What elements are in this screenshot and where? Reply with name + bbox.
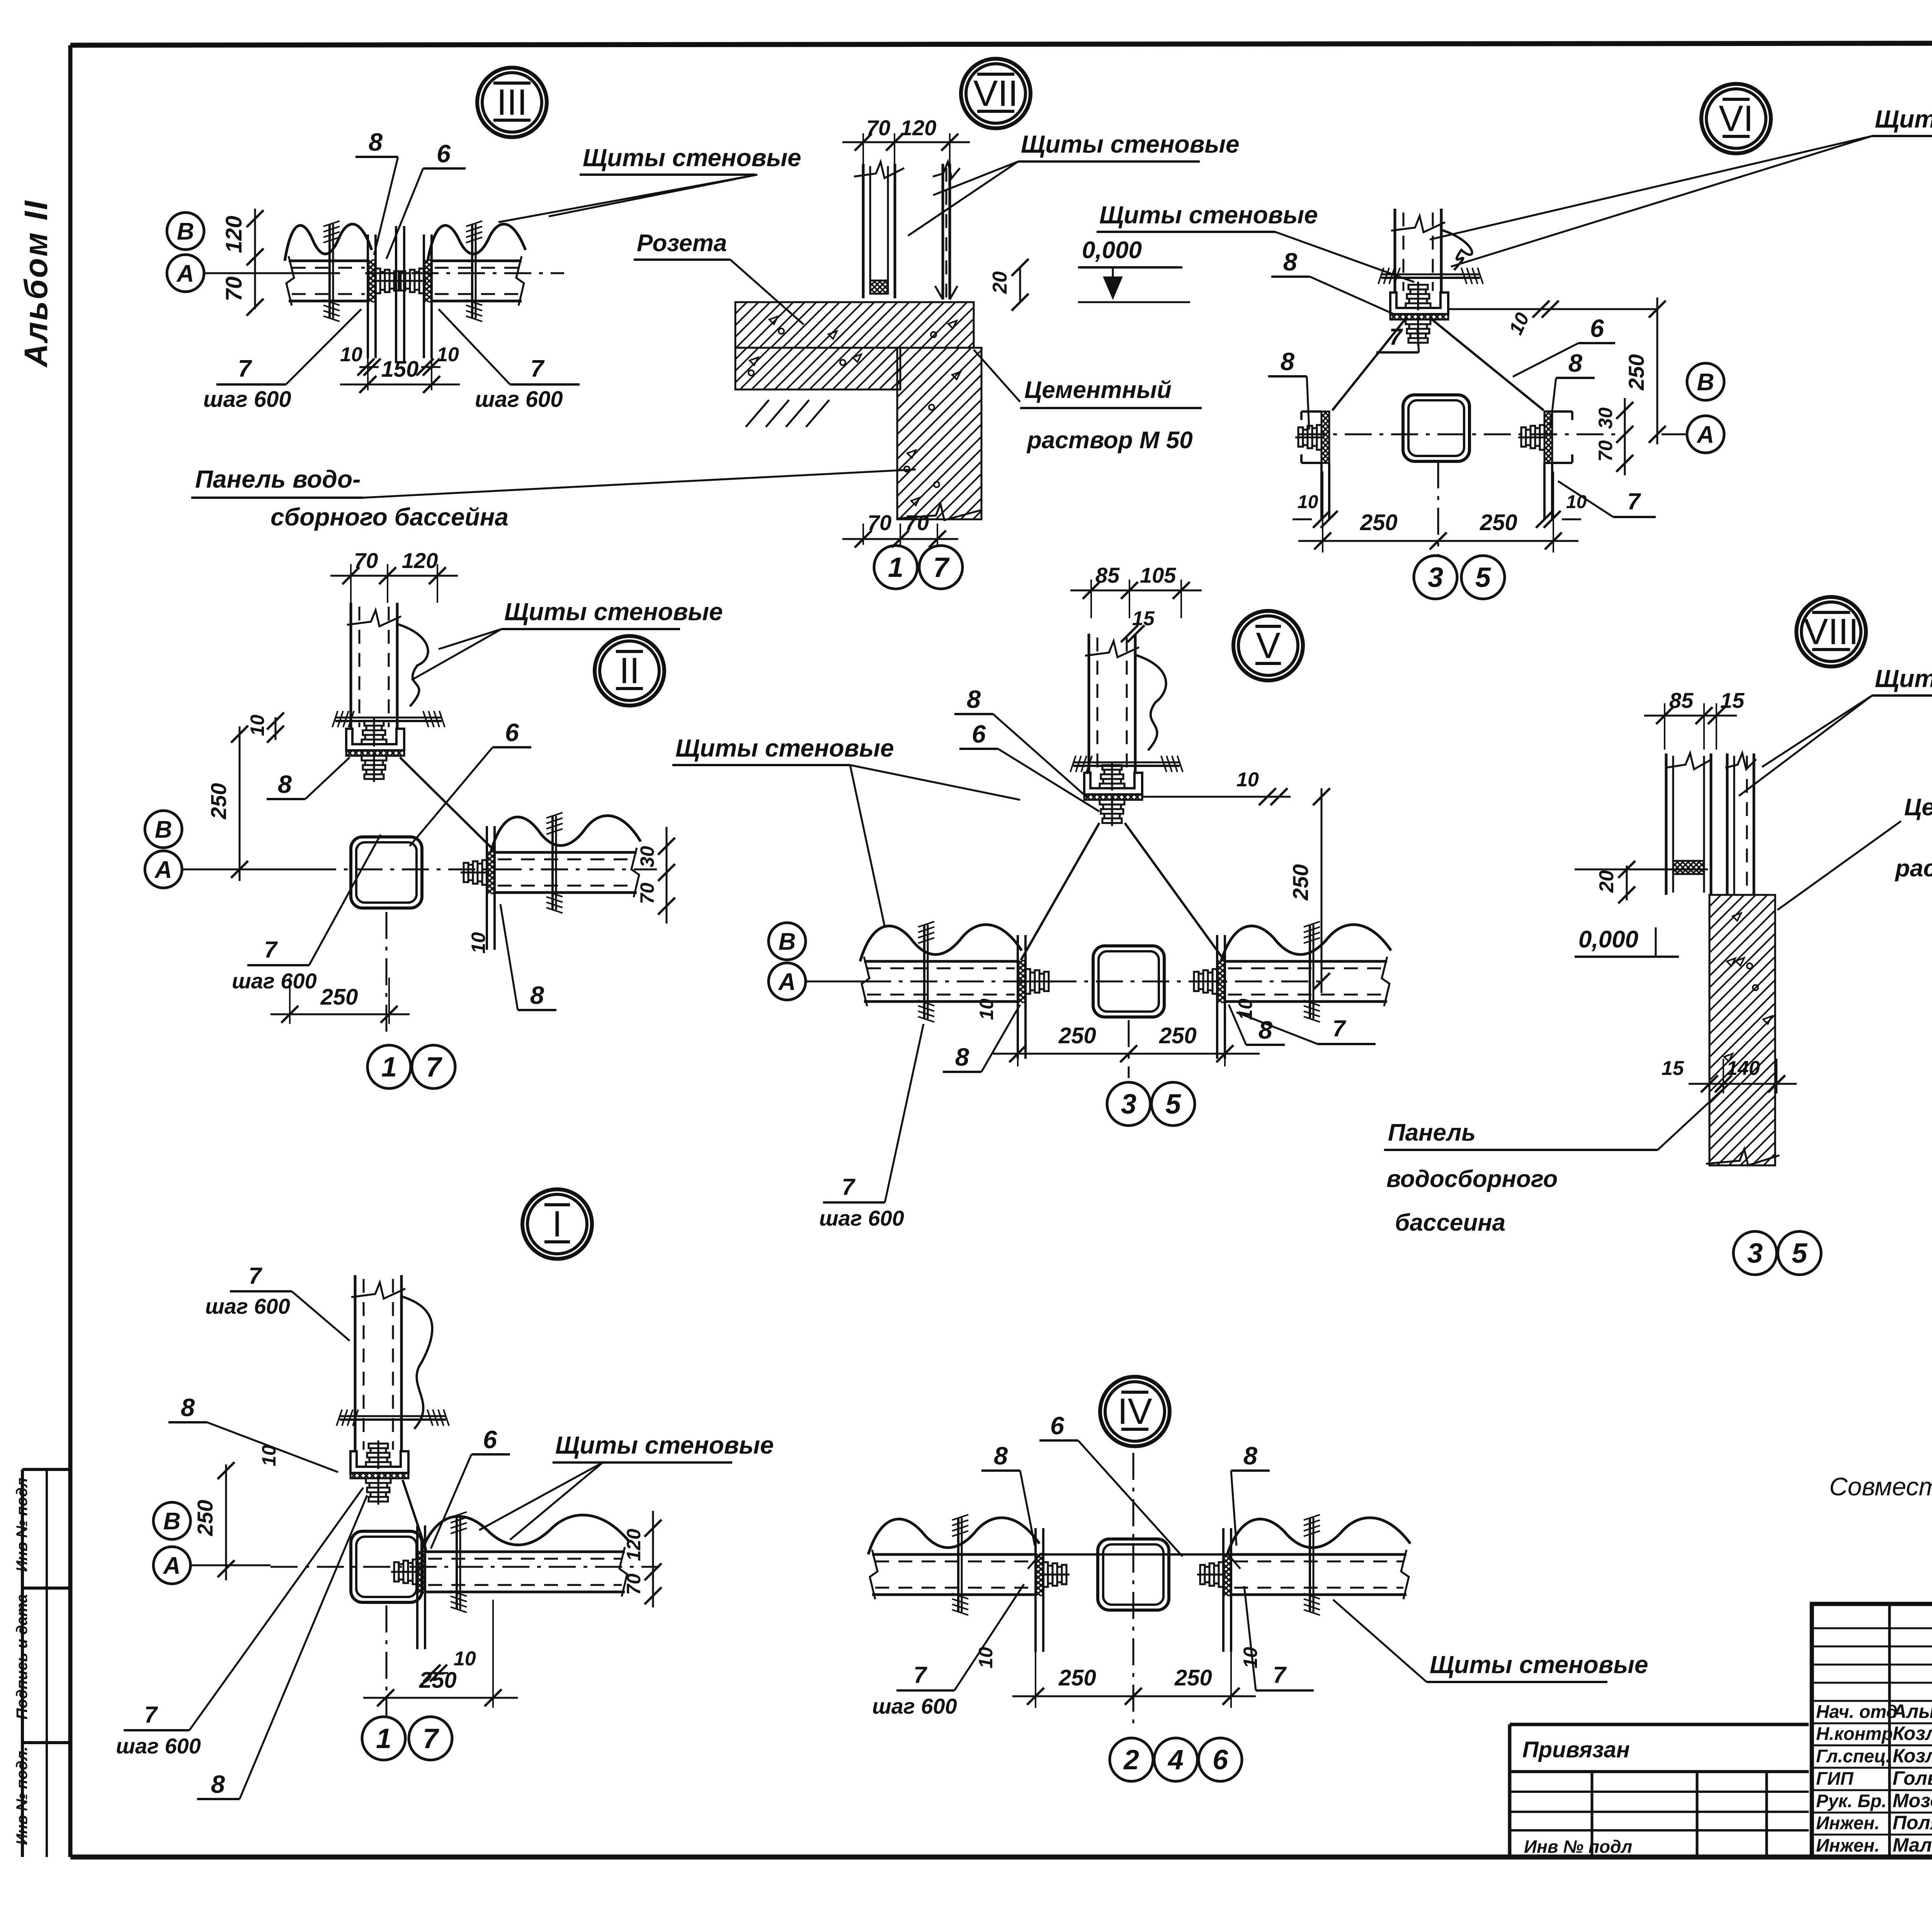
svg-text:В: В bbox=[779, 928, 796, 955]
svg-text:250: 250 bbox=[1159, 1023, 1197, 1048]
svg-text:7: 7 bbox=[264, 937, 278, 963]
svg-text:8: 8 bbox=[1283, 248, 1298, 276]
svg-text:70: 70 bbox=[866, 116, 890, 140]
svg-text:70: 70 bbox=[354, 548, 378, 573]
svg-text:120: 120 bbox=[402, 548, 438, 573]
svg-text:5: 5 bbox=[1475, 562, 1491, 593]
svg-text:В: В bbox=[1697, 369, 1714, 396]
svg-text:8: 8 bbox=[967, 685, 981, 713]
svg-text:ГИП: ГИП bbox=[1816, 1768, 1854, 1789]
svg-text:7: 7 bbox=[933, 552, 950, 583]
svg-text:шаг 600: шаг 600 bbox=[205, 1294, 290, 1318]
svg-text:3: 3 bbox=[1428, 562, 1443, 593]
svg-text:сборного бассейна: сборного бассейна bbox=[270, 503, 509, 531]
svg-text:250: 250 bbox=[206, 783, 231, 820]
svg-text:70: 70 bbox=[1595, 440, 1616, 462]
svg-text:Щиты стеновые: Щиты стеновые bbox=[1099, 201, 1318, 229]
svg-text:250: 250 bbox=[1624, 354, 1648, 391]
svg-text:Инв № подл: Инв № подл bbox=[1524, 1837, 1632, 1857]
svg-text:6: 6 bbox=[972, 720, 986, 748]
svg-text:0,000: 0,000 bbox=[1082, 237, 1142, 264]
svg-text:А: А bbox=[1696, 422, 1714, 448]
svg-text:6: 6 bbox=[1590, 314, 1604, 342]
svg-text:Подпись и дата: Подпись и дата bbox=[14, 1594, 31, 1719]
svg-text:Щиты стеновые: Щиты стеновые bbox=[583, 144, 801, 172]
svg-text:8: 8 bbox=[1281, 347, 1295, 376]
svg-text:шаг 600: шаг 600 bbox=[872, 1694, 957, 1718]
svg-text:7: 7 bbox=[842, 1174, 855, 1200]
svg-text:IV: IV bbox=[1117, 1391, 1152, 1432]
svg-text:Инв № подл: Инв № подл bbox=[14, 1478, 31, 1572]
svg-text:10: 10 bbox=[975, 1647, 997, 1668]
svg-text:6: 6 bbox=[1213, 1745, 1228, 1775]
svg-text:А: А bbox=[176, 260, 194, 287]
svg-text:250: 250 bbox=[193, 1500, 217, 1536]
svg-text:7: 7 bbox=[423, 1723, 439, 1754]
svg-text:7: 7 bbox=[913, 1662, 927, 1688]
svg-text:Розета: Розета bbox=[637, 230, 727, 257]
svg-text:10: 10 bbox=[258, 1445, 280, 1466]
svg-text:10: 10 bbox=[1298, 492, 1318, 512]
svg-text:1: 1 bbox=[376, 1723, 391, 1754]
svg-text:85: 85 bbox=[1095, 563, 1120, 587]
svg-text:Нач. отд: Нач. отд bbox=[1816, 1701, 1898, 1722]
svg-text:7: 7 bbox=[1273, 1662, 1287, 1688]
svg-text:Полякова: Полякова bbox=[1893, 1812, 1932, 1833]
svg-text:Щиты стеновые: Щиты стеновые bbox=[1875, 665, 1932, 692]
svg-text:Щиты стеновые: Щиты стеновые bbox=[1875, 105, 1932, 133]
svg-text:Мозо: Мозо bbox=[1893, 1790, 1932, 1811]
svg-text:7: 7 bbox=[144, 1702, 158, 1728]
svg-text:70: 70 bbox=[636, 883, 658, 904]
svg-text:15: 15 bbox=[1720, 688, 1745, 713]
svg-text:250: 250 bbox=[1058, 1665, 1096, 1690]
svg-text:85: 85 bbox=[1669, 688, 1694, 713]
svg-text:10: 10 bbox=[468, 932, 489, 954]
svg-text:1: 1 bbox=[381, 1052, 397, 1083]
svg-text:10: 10 bbox=[1236, 769, 1259, 791]
svg-text:шаг 600: шаг 600 bbox=[475, 387, 563, 412]
svg-text:6: 6 bbox=[1050, 1411, 1065, 1440]
svg-text:250: 250 bbox=[1360, 510, 1398, 535]
svg-text:2: 2 bbox=[1123, 1745, 1139, 1775]
svg-text:10: 10 bbox=[340, 344, 362, 366]
svg-text:А: А bbox=[778, 969, 796, 995]
svg-text:15: 15 bbox=[1662, 1057, 1684, 1080]
svg-text:Козловичер: Козловичер bbox=[1893, 1723, 1932, 1744]
svg-text:А: А bbox=[163, 1553, 181, 1579]
svg-text:8: 8 bbox=[1259, 1016, 1273, 1044]
svg-text:120: 120 bbox=[900, 116, 936, 140]
svg-text:250: 250 bbox=[419, 1668, 457, 1693]
svg-text:III: III bbox=[497, 82, 527, 123]
svg-text:Привязан: Привязан bbox=[1522, 1737, 1630, 1762]
svg-text:Цементный: Цементный bbox=[1904, 794, 1932, 821]
svg-text:бассеина: бассеина bbox=[1395, 1209, 1505, 1236]
svg-text:шаг 600: шаг 600 bbox=[203, 387, 291, 412]
svg-text:6: 6 bbox=[483, 1425, 497, 1454]
svg-text:Щиты стеновые: Щиты стеновые bbox=[1430, 1651, 1648, 1678]
svg-text:Альтшуллер: Альтшуллер bbox=[1892, 1701, 1932, 1722]
svg-text:шаг 600: шаг 600 bbox=[232, 969, 317, 993]
svg-text:30: 30 bbox=[636, 846, 658, 867]
svg-text:Щиты стеновые: Щиты стеновые bbox=[675, 734, 894, 762]
svg-text:Н.контр: Н.контр bbox=[1816, 1723, 1893, 1744]
svg-text:раствор М 50: раствор М 50 bbox=[1895, 855, 1932, 882]
svg-text:Щиты стеновые: Щиты стеновые bbox=[555, 1431, 774, 1459]
svg-text:3: 3 bbox=[1747, 1238, 1763, 1269]
svg-text:3: 3 bbox=[1121, 1089, 1136, 1120]
svg-text:Альбом II: Альбом II bbox=[18, 199, 54, 368]
svg-text:250: 250 bbox=[1480, 510, 1517, 535]
svg-text:30: 30 bbox=[1595, 407, 1616, 429]
svg-text:Совместносдоннымсм.листАС 12.: Совместносдоннымсм.листАС 12. bbox=[1829, 1472, 1932, 1501]
svg-text:250: 250 bbox=[1058, 1023, 1096, 1048]
svg-text:70: 70 bbox=[623, 1573, 645, 1595]
svg-text:6: 6 bbox=[437, 139, 451, 168]
svg-text:V: V bbox=[1256, 625, 1280, 666]
svg-text:20: 20 bbox=[989, 271, 1011, 294]
svg-text:А: А bbox=[154, 857, 172, 883]
svg-text:В: В bbox=[155, 816, 172, 843]
svg-text:Инжен.: Инжен. bbox=[1816, 1835, 1879, 1855]
svg-text:1: 1 bbox=[888, 552, 903, 583]
svg-text:250: 250 bbox=[1174, 1665, 1212, 1690]
svg-text:10: 10 bbox=[976, 998, 997, 1020]
svg-text:6: 6 bbox=[505, 718, 519, 747]
svg-text:10: 10 bbox=[437, 344, 459, 366]
svg-text:В: В bbox=[163, 1508, 181, 1535]
svg-text:В: В bbox=[177, 218, 194, 245]
svg-text:70: 70 bbox=[221, 276, 247, 301]
svg-text:Гольдина: Гольдина bbox=[1893, 1767, 1932, 1789]
svg-text:шаг 600: шаг 600 bbox=[819, 1206, 904, 1230]
svg-text:8: 8 bbox=[994, 1442, 1008, 1470]
svg-text:8: 8 bbox=[369, 128, 383, 156]
svg-text:Цементный: Цементный bbox=[1024, 377, 1172, 403]
svg-text:0,000: 0,000 bbox=[1578, 926, 1638, 953]
svg-text:7: 7 bbox=[238, 355, 252, 382]
svg-text:250: 250 bbox=[1288, 864, 1313, 901]
svg-text:8: 8 bbox=[1568, 349, 1583, 377]
svg-text:10: 10 bbox=[1566, 492, 1587, 512]
svg-text:8: 8 bbox=[530, 981, 544, 1009]
svg-text:10: 10 bbox=[454, 1648, 476, 1670]
svg-text:70: 70 bbox=[867, 510, 891, 535]
svg-text:5: 5 bbox=[1792, 1238, 1808, 1269]
svg-text:5: 5 bbox=[1165, 1089, 1181, 1120]
svg-text:8: 8 bbox=[955, 1043, 969, 1071]
svg-text:8: 8 bbox=[211, 1770, 225, 1798]
svg-text:120: 120 bbox=[623, 1529, 645, 1561]
svg-text:4: 4 bbox=[1167, 1745, 1184, 1775]
svg-text:250: 250 bbox=[320, 985, 358, 1010]
svg-text:водосборного: водосборного bbox=[1386, 1166, 1558, 1192]
svg-text:10: 10 bbox=[247, 714, 268, 736]
svg-text:8: 8 bbox=[278, 770, 292, 798]
svg-text:Инжен.: Инжен. bbox=[1816, 1813, 1879, 1833]
svg-text:VI: VI bbox=[1719, 98, 1753, 139]
svg-text:8: 8 bbox=[1243, 1442, 1258, 1470]
svg-text:8: 8 bbox=[181, 1393, 195, 1422]
svg-text:120: 120 bbox=[221, 216, 247, 253]
svg-text:II: II bbox=[619, 650, 640, 691]
svg-text:шаг 600: шаг 600 bbox=[116, 1734, 201, 1758]
svg-text:70: 70 bbox=[905, 510, 929, 535]
svg-text:20: 20 bbox=[1595, 870, 1618, 893]
svg-text:Инв № подл.: Инв № подл. bbox=[14, 1746, 31, 1845]
svg-text:Щиты стеновые: Щиты стеновые bbox=[1021, 130, 1240, 158]
svg-text:VIII: VIII bbox=[1804, 611, 1859, 652]
svg-text:Козловичер: Козловичер bbox=[1893, 1745, 1932, 1767]
svg-text:140: 140 bbox=[1726, 1057, 1760, 1080]
svg-text:Гл.спец.: Гл.спец. bbox=[1816, 1746, 1891, 1766]
svg-text:Малахова: Малахова bbox=[1893, 1834, 1932, 1856]
svg-text:Панель: Панель bbox=[1388, 1119, 1476, 1146]
svg-text:Щиты стеновые: Щиты стеновые bbox=[504, 598, 723, 626]
svg-text:7: 7 bbox=[248, 1263, 262, 1289]
svg-text:раствор М 50: раствор М 50 bbox=[1026, 427, 1193, 454]
svg-text:Рук. Бр.: Рук. Бр. bbox=[1816, 1791, 1886, 1811]
svg-text:7: 7 bbox=[426, 1052, 442, 1083]
svg-text:7: 7 bbox=[1627, 488, 1641, 514]
svg-text:150: 150 bbox=[381, 357, 419, 382]
svg-text:7: 7 bbox=[531, 355, 545, 382]
svg-text:7: 7 bbox=[1332, 1015, 1346, 1041]
svg-text:105: 105 bbox=[1140, 563, 1176, 587]
svg-text:Панель водо-: Панель водо- bbox=[195, 465, 361, 493]
svg-text:VII: VII bbox=[973, 73, 1018, 114]
svg-text:I: I bbox=[552, 1204, 562, 1245]
